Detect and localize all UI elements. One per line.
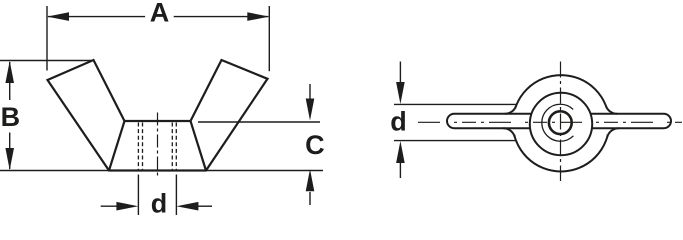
thread hidden lines: [138, 123, 176, 170]
fillet patch bottom-left: [503, 128, 516, 137]
svg-text:B: B: [1, 102, 21, 132]
body left edge: [109, 121, 125, 171]
fillet patch top-right: [606, 106, 618, 114]
dimension d side view bottom: [399, 162, 401, 178]
center line vertical: [157, 113, 159, 179]
arrowhead A left: [47, 12, 69, 21]
dimension d right: [196, 205, 212, 207]
arrowhead B top: [5, 61, 14, 83]
outer circle: [513, 75, 609, 171]
extension line C top: [198, 121, 320, 123]
svg-text:C: C: [305, 130, 325, 160]
dimension A line: [48, 16, 268, 18]
dimension d side view top: [399, 62, 401, 85]
extension lines d: [138, 175, 176, 216]
wing fillet bottom-left: [503, 128, 515, 137]
dimension B line: [9, 62, 11, 169]
wing bar: [447, 114, 671, 128]
extension line B top: [0, 60, 94, 62]
center line horizontal: [418, 121, 682, 123]
thread arc: [542, 104, 574, 141]
fillet patch top-left: [504, 106, 516, 114]
dimension d left: [101, 205, 118, 207]
crown circle: [530, 93, 592, 155]
extension line d bottom: [394, 140, 517, 142]
svg-text:A: A: [150, 0, 170, 28]
extension line A right: [268, 6, 270, 71]
extension line A left: [46, 6, 48, 71]
center line vertical: [560, 62, 562, 182]
fillet patch bottom-right: [607, 128, 620, 137]
svg-text:d: d: [390, 107, 407, 137]
svg-text:d: d: [151, 188, 168, 217]
wing fillet top-left: [505, 106, 516, 114]
wing nut outline: [48, 60, 268, 171]
wing fillet top-right: [606, 106, 617, 114]
wing fillet bottom-right: [607, 128, 619, 137]
arrowhead B bottom: [5, 148, 14, 170]
extension line d top: [394, 103, 517, 105]
arrow C bottom: [309, 192, 311, 205]
baseline extension: [0, 170, 323, 172]
arrow C top: [309, 84, 311, 100]
hole circle: [549, 111, 572, 134]
body right edge: [191, 121, 207, 171]
arrowhead A right: [247, 12, 269, 21]
